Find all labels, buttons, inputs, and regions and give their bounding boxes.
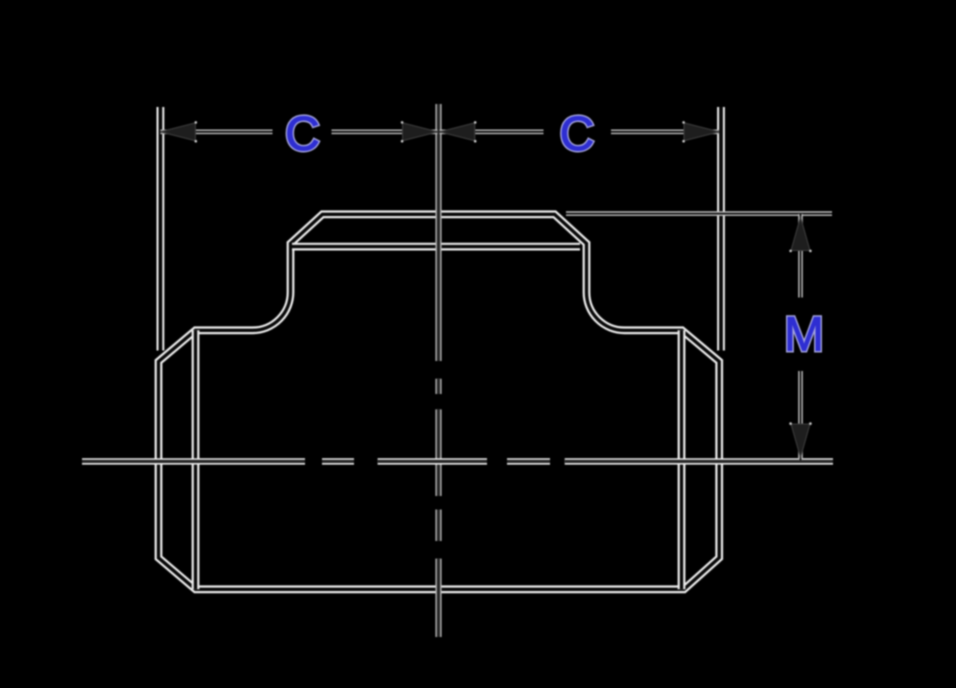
arrowhead left C left: [160, 121, 197, 142]
left C dimension line: [160, 130, 437, 135]
right end inner bevel line: [678, 330, 686, 589]
arrowhead right C right: [682, 121, 719, 142]
svg-text:M: M: [784, 308, 824, 361]
left extension line: [156, 107, 164, 351]
branch inner bevel line: [292, 243, 580, 251]
right C dimension line: [440, 130, 720, 135]
M top extension line: [566, 211, 832, 216]
svg-text:C: C: [560, 108, 595, 161]
arrowhead left C right: [401, 121, 438, 142]
arrowhead M down: [789, 422, 811, 457]
svg-text:C: C: [285, 108, 320, 161]
horizontal centerline: [82, 458, 833, 464]
label C left: [285, 108, 320, 161]
arrowhead M up: [789, 217, 811, 252]
vertical centerline: [435, 104, 441, 637]
label C right: [560, 108, 595, 161]
label M: [784, 308, 824, 361]
left end inner bevel line: [192, 330, 200, 589]
right extension line: [717, 107, 725, 351]
arrowhead right C left: [440, 121, 477, 142]
M dimension line: [798, 214, 803, 460]
tee body outline: [159, 214, 720, 589]
